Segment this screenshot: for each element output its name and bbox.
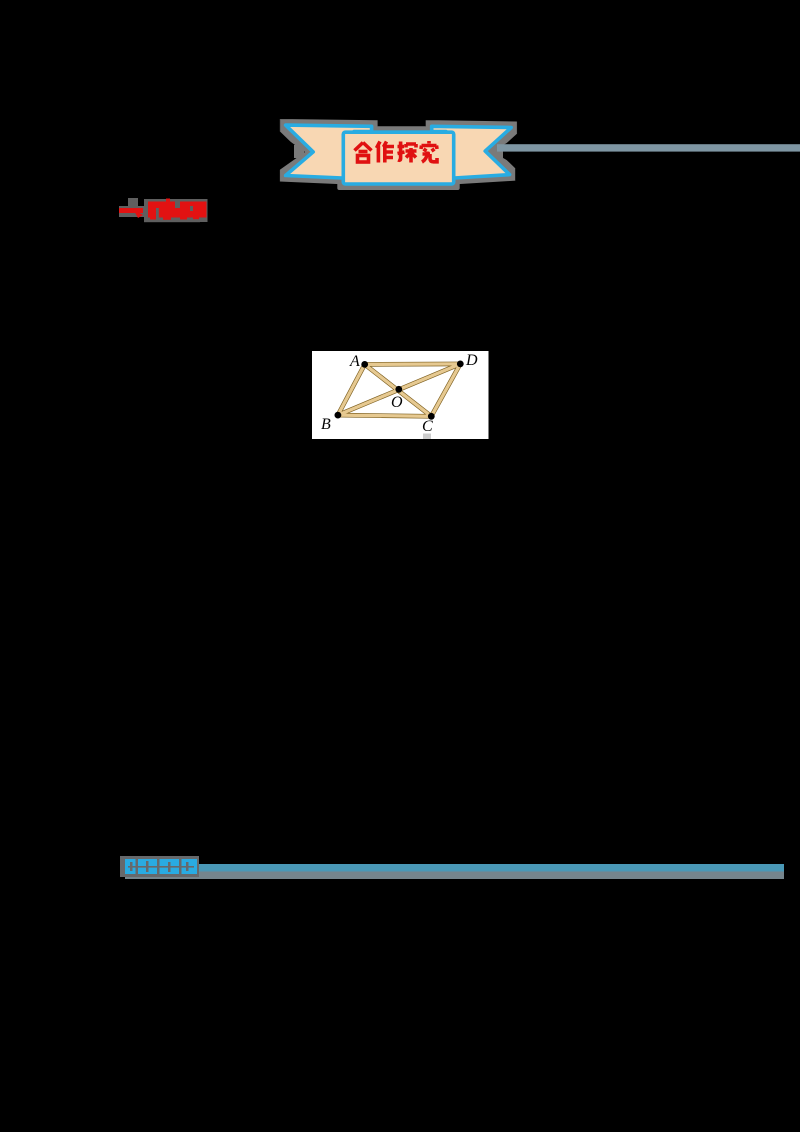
合 bbox=[355, 143, 372, 163]
black inside left notch bbox=[280, 134, 306, 170]
svg-text:A: A bbox=[349, 353, 360, 370]
red comma 、 bbox=[133, 209, 143, 218]
探 bbox=[398, 142, 417, 163]
grey-blue smear band to right edge bbox=[497, 144, 800, 151]
parallelogram strips bbox=[338, 364, 460, 416]
blue heading block bbox=[120, 856, 199, 877]
vertex labels bbox=[321, 352, 478, 435]
long horizontal rule bbox=[125, 864, 784, 872]
vertex dots bbox=[335, 361, 464, 420]
blue heading glyphs bbox=[125, 859, 197, 874]
red heading glyph area bbox=[148, 202, 207, 218]
svg-text:B: B bbox=[321, 416, 331, 433]
grey block under heading bbox=[144, 199, 208, 222]
dark gaps inside heading bbox=[156, 202, 193, 218]
svg-text:O: O bbox=[391, 394, 403, 411]
banner text 合作探究 (drawn strokes) bbox=[355, 141, 438, 163]
red section heading (partially hidden by black text) bbox=[119, 198, 208, 222]
banner grey halo bbox=[286, 125, 512, 184]
作 bbox=[377, 142, 395, 163]
small grey artifact under C bbox=[423, 434, 431, 440]
red dash 一 bbox=[119, 208, 143, 213]
svg-text:D: D bbox=[465, 352, 478, 369]
ribbon banner (cyan outline, cream fill) bbox=[286, 125, 512, 184]
究 bbox=[421, 141, 437, 162]
black inside right notch bbox=[491, 138, 517, 166]
grey artifact block left bbox=[128, 198, 138, 208]
figure white box bbox=[312, 351, 489, 439]
svg-text:C: C bbox=[422, 418, 433, 435]
